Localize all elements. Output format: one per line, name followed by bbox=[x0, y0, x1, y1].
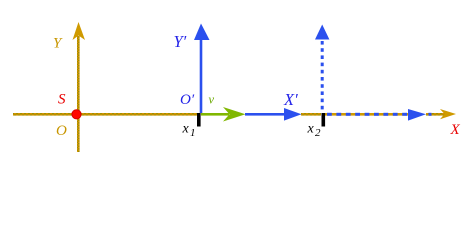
svg-text:x: x bbox=[307, 122, 315, 137]
second blue arrow on X axis (solid head) bbox=[408, 109, 426, 121]
wire: X axis olive segment between X' arrow tip and x2 tick bbox=[301, 113, 321, 116]
svg-text:O: O bbox=[56, 123, 67, 139]
svg-text:Y′: Y′ bbox=[174, 32, 187, 51]
svg-text:X: X bbox=[450, 122, 461, 138]
tick x1 (black) bbox=[197, 113, 201, 127]
wire: X axis olive dashed segment with blue dashes (x2 to second arrow) bbox=[325, 113, 409, 116]
svg-text:O′: O′ bbox=[180, 92, 195, 108]
wire: X axis olive segment right end bbox=[426, 113, 446, 116]
svg-text:1: 1 bbox=[190, 127, 196, 139]
velocity arrow v (green) bbox=[201, 113, 229, 116]
origin dot (event S) bbox=[72, 110, 81, 119]
svg-text:v: v bbox=[209, 93, 215, 107]
svg-text:X′: X′ bbox=[283, 90, 298, 109]
axis Y (frame S, olive vertical) bbox=[77, 36, 80, 152]
arrowhead: dashed vertical arrow (tip up) bbox=[315, 25, 329, 40]
svg-text:2: 2 bbox=[315, 127, 321, 139]
svg-text:Y: Y bbox=[53, 36, 63, 52]
axis Y' (frame S', blue vertical) bbox=[200, 38, 203, 113]
arrowhead: X axis olive arrow (tip right) bbox=[440, 109, 456, 119]
X' arrow (blue, shaft + head) bbox=[245, 113, 286, 116]
arrowhead: Y' axis blue arrow (tip up) bbox=[194, 24, 210, 41]
svg-text:x: x bbox=[182, 122, 190, 137]
wire: X axis olive segment left (frame S) bbox=[13, 113, 199, 116]
dashed vertical arrow at x2 (blue) bbox=[321, 41, 324, 109]
tick x2 (black) bbox=[322, 113, 326, 127]
arrowhead: Y axis olive arrow (tip up) bbox=[73, 22, 86, 40]
svg-text:S: S bbox=[58, 92, 66, 108]
wire: small blue dash after second arrow tip bbox=[429, 113, 432, 116]
